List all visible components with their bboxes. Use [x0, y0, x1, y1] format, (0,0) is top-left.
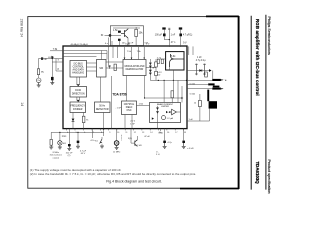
switch S1: [101, 137, 103, 139]
wire opamp out: [176, 111, 180, 113]
ground C7: [76, 143, 80, 148]
wire A to B y71: [87, 70, 97, 72]
svg-text:CRYSTAL: CRYSTAL: [124, 103, 135, 106]
svg-text:1998 Mar 24: 1998 Mar 24: [20, 19, 24, 38]
wire diode chain: [149, 59, 151, 80]
wire Q1 emitter down: [127, 38, 129, 46]
capacitor C1 input coupling: [41, 57, 47, 61]
cap branch left: [195, 64, 198, 76]
block B: [97, 60, 107, 78]
signal source V1: [36, 78, 41, 83]
wire d5d6: [157, 106, 159, 123]
wire R10 bottom: [199, 107, 201, 121]
crystal X1: [58, 141, 62, 145]
svg-text:1 nF: 1 nF: [130, 123, 135, 125]
svg-text:Product specification: Product specification: [267, 160, 271, 194]
wire vert to R12: [50, 132, 52, 139]
ground crystal: [58, 145, 62, 149]
svg-text:4 µA: 4 µA: [125, 43, 130, 46]
wire C top pins up: [125, 47, 145, 60]
svg-text:2.2 kΩ: 2.2 kΩ: [135, 144, 142, 147]
svg-text:V₁: V₁: [225, 80, 227, 82]
block E: [70, 102, 86, 113]
resistor R8 below bus: [171, 91, 174, 98]
arrowhead into D: [77, 84, 80, 86]
wire A down arrow to D (double): [77, 77, 80, 85]
svg-text:8 MHz: 8 MHz: [53, 152, 59, 154]
ground source: [37, 83, 41, 87]
diode D10: [209, 69, 212, 72]
svg-text:12 MHz: 12 MHz: [113, 151, 121, 153]
node bus 3: [173, 80, 174, 81]
wire down from bus2: [163, 80, 165, 102]
transistor curve inside: [170, 54, 184, 67]
wire C8 up: [68, 129, 70, 144]
right header rules: [250, 16, 252, 190]
svg-text:4.7 µF: 4.7 µF: [80, 150, 87, 152]
svg-text:40 dBµV: 40 dBµV: [71, 44, 80, 46]
wire box down to bus: [172, 70, 174, 80]
svg-text:3rd overtone: 3rd overtone: [50, 154, 63, 157]
wire drop line2: [106, 51, 108, 60]
resistor R10: [199, 100, 202, 106]
resistor R9: [205, 72, 208, 77]
wire R11: [83, 113, 85, 117]
svg-text:25 dBµV: 25 dBµV: [80, 44, 89, 46]
node r6r7: [153, 67, 154, 68]
ground C8: [67, 146, 71, 150]
wire r6r7: [155, 59, 157, 62]
wire bus3 to R8: [172, 80, 174, 90]
wire C5 down: [180, 36, 182, 47]
svg-text:5 mA: 5 mA: [190, 83, 196, 86]
svg-text:1 nF: 1 nF: [197, 57, 202, 59]
svg-text:AND DATA: AND DATA: [73, 68, 85, 71]
wire C7: [77, 132, 79, 140]
svg-text:IN: IN: [101, 34, 104, 37]
wire into IC pin 7: [52, 61, 63, 63]
wire X2 up: [116, 129, 118, 141]
svg-text:(2): (2): [68, 155, 71, 157]
wire r6 to r7: [155, 67, 157, 71]
wire lower out y121: [187, 109, 210, 121]
transistor Q1: [121, 29, 128, 38]
wire T1 down to H: [181, 99, 183, 103]
wire dash down: [121, 135, 123, 141]
thick vertical drop: [207, 90, 209, 102]
svg-text:RGB amplifier with I2C-bus con: RGB amplifier with I2C-bus control: [255, 19, 260, 96]
block C: [123, 60, 146, 76]
diode D8 left: [152, 117, 154, 119]
resistor R12: [50, 139, 52, 145]
svg-text:DIRECTION: DIRECTION: [72, 93, 85, 95]
wire G bottom 1: [124, 115, 126, 129]
block A: [70, 61, 87, 78]
arrowhead into E: [77, 100, 80, 102]
IC bottom pin stubs: [67, 129, 184, 131]
wire R1 up: [135, 27, 137, 29]
wire center vertical: [168, 30, 170, 47]
resistor RB2: [161, 59, 163, 63]
arrowheads into C: [124, 58, 126, 60]
wire G bottom 2: [131, 115, 133, 129]
capacitor C6: [51, 77, 54, 80]
wire pin stub 4.7n: [91, 129, 93, 138]
wire H top to bus: [177, 80, 179, 102]
wire Q2: [130, 129, 132, 144]
IC bottom pin numbers: [67, 132, 187, 134]
svg-text:LIMITER: LIMITER: [161, 106, 169, 108]
svg-text:1 nF: 1 nF: [189, 119, 194, 121]
resistor R11: [82, 116, 85, 122]
wire G to H: [137, 105, 150, 107]
input buffer box: [110, 26, 143, 46]
wire D down arrow to E: [77, 97, 80, 101]
wire top-left pin: [50, 50, 63, 52]
capacitor C8: [68, 144, 71, 146]
wire c right to chain: [146, 67, 156, 69]
resistor R6: [155, 62, 158, 67]
capacitor small middle: [168, 28, 170, 29]
svg-text:(2) In case the bandwidth RL: (2) In case the bandwidth RL = 7.5 k, CL…: [30, 172, 197, 176]
svg-text:4.7µ: 4.7µ: [167, 142, 172, 144]
wire subbox into IC c: [117, 46, 119, 58]
svg-text:1 nF: 1 nF: [171, 35, 176, 37]
wire crystal up: [59, 132, 61, 140]
diode D4: [149, 73, 152, 75]
wire input top: [39, 58, 64, 60]
block H: [150, 103, 181, 123]
arrow 1: [221, 79, 223, 80]
svg-text:1.5k: 1.5k: [113, 29, 118, 32]
wire sig line 1: [63, 50, 107, 52]
resistor RB1: [157, 59, 159, 63]
svg-text:FIELD: FIELD: [126, 107, 133, 109]
svg-text:50 Hz: 50 Hz: [99, 106, 106, 108]
wire out3: [187, 88, 212, 90]
svg-text:DETECTOR: DETECTOR: [96, 109, 109, 111]
wire R1 down: [135, 37, 137, 46]
terminal circle T1: [181, 97, 183, 99]
diode D5: [156, 108, 159, 110]
svg-text:Philips Semiconductors: Philips Semiconductors: [267, 17, 271, 55]
wire into box from left: [160, 58, 166, 60]
ground C6: [50, 80, 54, 84]
wire F bottom: [103, 113, 105, 137]
wire C bottom to G top: [126, 76, 128, 102]
svg-text:100 µF: 100 µF: [155, 35, 163, 37]
node bus edge: [186, 80, 187, 81]
svg-text:MODULATOR AND: MODULATOR AND: [125, 65, 145, 68]
bus wire y80.4: [150, 79, 212, 81]
wire B bottom down: [99, 77, 101, 102]
diode D9: [199, 69, 202, 72]
block D: [70, 87, 87, 98]
resistor R7: [155, 71, 158, 75]
wire E bottom diode: [72, 113, 74, 129]
opamp triangle: [172, 109, 177, 115]
wire R2 to source: [38, 75, 40, 78]
svg-text:1 kΩ: 1 kΩ: [139, 103, 144, 106]
arrow 3: [221, 88, 223, 89]
svg-text:1 kΩ: 1 kΩ: [62, 135, 67, 138]
wire drop to block B top: [101, 51, 103, 60]
current source circle: [162, 116, 166, 120]
wire from box down to IC pins: [108, 38, 110, 46]
wire out y70.5: [187, 70, 210, 72]
wire sig line 3: [63, 56, 97, 58]
svg-text:= 5 kΩ: = 5 kΩ: [187, 147, 194, 150]
svg-text:4Ω: 4Ω: [63, 142, 66, 145]
svg-text:HANDLING: HANDLING: [72, 71, 84, 74]
diode D6: [156, 111, 159, 113]
wire C4 down and jog: [164, 36, 169, 39]
capacitor C9: [163, 141, 166, 143]
node caps jog: [169, 39, 170, 40]
svg-text:GND: GND: [158, 132, 163, 134]
source wave: [37, 80, 40, 81]
wire B to C: [106, 67, 123, 69]
node bus 2: [164, 80, 165, 81]
capacitor C2: [118, 31, 121, 33]
resistor R2: [37, 69, 39, 75]
svg-text:FREQUENCY: FREQUENCY: [70, 106, 85, 108]
svg-text:4.7µ 0.1µ: 4.7µ 0.1µ: [196, 60, 206, 62]
wire R10 top: [199, 94, 201, 100]
svg-text:5 mA: 5 mA: [190, 92, 196, 95]
input terminal: [109, 34, 112, 37]
node X1 rail: [59, 132, 60, 133]
svg-text:OSC: OSC: [127, 110, 132, 112]
node C7 rail: [77, 132, 78, 133]
wire right corner drop a: [188, 46, 190, 55]
wire H gnd stub: [160, 129, 162, 131]
resistor R1: [135, 29, 138, 36]
capacitor CF between B and C: [108, 65, 110, 69]
wire T1 up: [181, 86, 183, 97]
cathode bar 1: [212, 79, 221, 81]
svg-text:47 n: 47 n: [171, 42, 176, 44]
wire top rail of box: [113, 27, 140, 29]
svg-text:Fig.4 Block diagram and test: Fig.4 Block diagram and test circuit.: [106, 180, 161, 184]
svg-text:47 nF: 47 nF: [144, 136, 150, 138]
diode D1: [149, 63, 152, 65]
wire S1 down: [101, 144, 103, 146]
wire d0: [48, 56, 52, 58]
node bus 1: [158, 80, 159, 81]
svg-text:TDA6103Q: TDA6103Q: [255, 162, 260, 185]
diode D3: [149, 70, 152, 72]
wire A to B y67: [87, 66, 97, 68]
wire Q2 up: [136, 136, 138, 140]
figure frame: [28, 17, 239, 189]
wire r7 down: [155, 76, 157, 81]
wire out2: [187, 84, 208, 86]
wire B to C 2: [106, 61, 123, 63]
cap branch right: [203, 64, 206, 76]
svg-text:→ 1 nF: → 1 nF: [114, 108, 122, 110]
wire stub 2: [111, 41, 113, 45]
svg-text:DIVIDER: DIVIDER: [73, 109, 83, 111]
ground C10: [182, 143, 186, 148]
svg-text:9 V: 9 V: [146, 44, 150, 46]
svg-text:V₂: V₂: [156, 151, 158, 153]
cathode mid cluster: [208, 83, 214, 85]
wire bottom left horiz: [51, 131, 104, 133]
diode D7 horizontal pair: [166, 111, 168, 113]
svg-text:14: 14: [20, 102, 24, 106]
svg-text:I2C-BUS: I2C-BUS: [74, 63, 84, 65]
wire R8 down: [171, 98, 173, 103]
wire box bottom pins: [118, 41, 120, 46]
svg-text:DEMODULATOR: DEMODULATOR: [126, 68, 144, 71]
wire C9 up: [164, 129, 166, 141]
svg-text:TDA 8756: TDA 8756: [112, 93, 127, 97]
wire right corner drop b: [192, 46, 194, 55]
diode D0: [52, 56, 55, 59]
wire C10 up: [183, 129, 185, 141]
svg-text:5(2): 5(2): [128, 138, 132, 140]
ground R12: [49, 145, 53, 149]
svg-text:63 V: 63 V: [81, 153, 86, 155]
crystal X2: [114, 141, 119, 146]
wire subbox into IC a: [108, 46, 110, 65]
svg-text:DATA: DATA: [75, 89, 81, 92]
transistor Q2 bottom: [135, 140, 138, 147]
wire Q1 collector up: [127, 28, 129, 29]
node J1: [52, 58, 53, 59]
ground S1: [100, 146, 104, 148]
wire C bottom right down: [145, 76, 183, 99]
wire H bottom pin: [157, 123, 159, 129]
wire input: [105, 34, 122, 36]
wire subbox into IC b: [112, 46, 114, 58]
capacitor C7: [77, 141, 80, 143]
wire A to B y63: [87, 62, 97, 64]
block F: [95, 102, 111, 113]
ground X2: [115, 145, 119, 149]
capacitor C10: [182, 141, 185, 143]
svg-text:1.2 µA: 1.2 µA: [167, 117, 174, 120]
svg-text:CONTROL: CONTROL: [73, 66, 85, 68]
block G: [122, 101, 137, 115]
wire into IC pin 8: [56, 59, 63, 72]
svg-text:crystal: crystal: [53, 156, 60, 159]
svg-text:9 V: 9 V: [183, 43, 187, 45]
capacitor C3: [118, 39, 121, 41]
diode D2: [149, 66, 152, 68]
heatsink blob: [209, 101, 217, 108]
wire mid vertical: [110, 76, 112, 129]
diode D11: [72, 119, 75, 122]
bandgap box: [166, 52, 184, 70]
wire d10 down: [212, 71, 214, 80]
capacitor C5 4.7uF electrolytic: [179, 27, 182, 36]
svg-text:5 Vₚ: 5 Vₚ: [156, 154, 160, 156]
svg-text:4.7 µF(1): 4.7 µF(1): [183, 35, 193, 37]
node C right: [144, 97, 145, 98]
resistor R4 between B and C: [114, 64, 116, 70]
ground C9: [163, 143, 167, 148]
svg-text:100 nF: 100 nF: [66, 152, 73, 154]
cathode bar 3: [212, 88, 221, 90]
wire R2 top: [38, 59, 40, 69]
capacitor C4 100uF electrolytic: [162, 27, 165, 36]
node F pin: [103, 128, 104, 129]
wire sig line 2: [63, 53, 107, 55]
wire down from node to cap: [51, 59, 53, 77]
